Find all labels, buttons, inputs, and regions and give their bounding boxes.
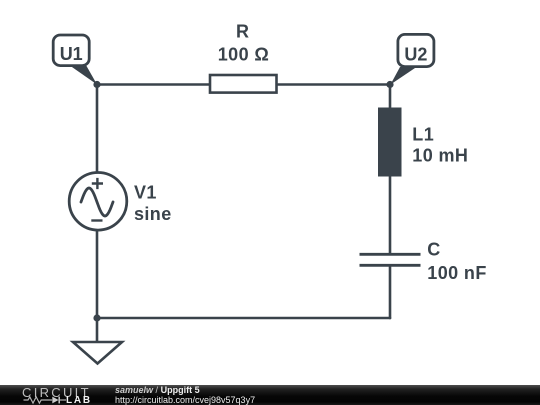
svg-text:C: C [427,240,440,260]
resistor R [210,75,277,93]
svg-text:R: R [236,22,249,42]
svg-text:sine: sine [134,204,172,224]
node B junction dot [386,81,393,88]
CircuitLab logo [0,385,100,405]
voltage source V1 value label [134,182,172,224]
wire inductor L1 bottom to capacitor C top [389,177,392,254]
svg-text:U2: U2 [404,45,427,65]
node label U2 [391,34,434,84]
node label U1 [53,35,97,85]
svg-text:LAB: LAB [66,395,92,405]
svg-text:L1: L1 [412,125,434,145]
wire node C down to ground [96,318,99,342]
capacitor C value label [427,240,486,283]
wire node B to inductor L1 top [389,85,392,109]
capacitor C [360,254,421,265]
wire bottom net (corner to node C) [97,317,390,320]
inductor L1 value label [412,125,468,166]
wire node A to resistor R left lead [97,83,209,86]
voltage source V1 [69,173,127,231]
inductor L1 [378,108,402,177]
wire resistor R right lead to node B [278,83,390,86]
node C junction dot [93,314,100,321]
svg-text:100 Ω: 100 Ω [218,44,269,64]
wire node C up to voltage source V1 minus terminal [96,230,99,318]
svg-text:V1: V1 [134,182,157,202]
resistor R value label [218,22,269,65]
ground [73,342,122,364]
svg-text:U1: U1 [60,44,83,64]
svg-text:10 mH: 10 mH [412,146,468,166]
node A junction dot [93,81,100,88]
wire voltage source V1 plus terminal up to node A [96,85,99,173]
svg-text:100 nF: 100 nF [427,263,486,283]
wire capacitor C bottom to corner [389,267,392,318]
footer title text [115,386,255,405]
